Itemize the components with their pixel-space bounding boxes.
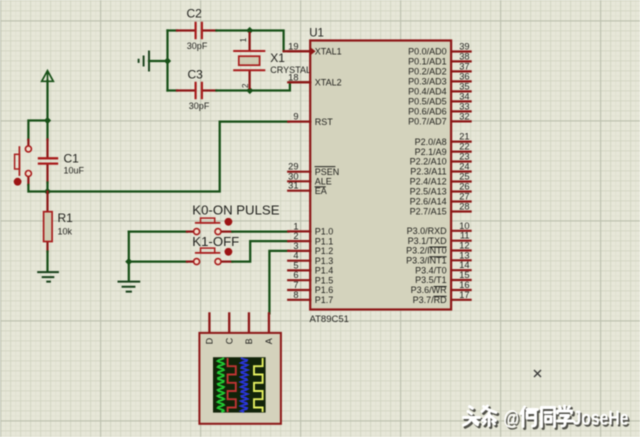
pin 15 P3.5/T1 (right)	[415, 270, 471, 285]
overline EA	[315, 186, 326, 188]
wire node to reset button top	[28, 121, 47, 140]
svg-text:U1: U1	[309, 28, 324, 40]
svg-text:X1: X1	[270, 51, 285, 65]
svg-text:10k: 10k	[58, 227, 73, 237]
svg-text:12: 12	[459, 241, 469, 251]
pin 33 P0.6/AD6 (right)	[408, 101, 471, 116]
svg-text:P2.3/A11: P2.3/A11	[410, 167, 446, 177]
pin 1 P1.0 (left)	[288, 221, 333, 236]
svg-text:P1.5: P1.5	[315, 275, 334, 285]
ground (left, sideways)	[139, 51, 149, 72]
wire oscilloscope pin stubs	[208, 313, 210, 333]
waveform red (channel C)	[228, 358, 236, 412]
svg-text:18: 18	[288, 72, 298, 82]
svg-text:P0.3/AD3: P0.3/AD3	[408, 77, 447, 87]
svg-text:D: D	[205, 337, 215, 344]
svg-text:P2.1/A9: P2.1/A9	[415, 147, 447, 157]
wire P1.2 to oscilloscope	[269, 251, 288, 314]
pin 36 P0.3/AD3 (right)	[408, 71, 471, 86]
watermark @ sign	[504, 408, 521, 432]
svg-text:37: 37	[459, 61, 469, 71]
pin 5 P1.4 (left)	[288, 260, 333, 275]
pin 21 P2.0/A8 (right)	[415, 132, 471, 147]
svg-text:P1.2: P1.2	[315, 246, 334, 256]
svg-text:15: 15	[459, 270, 469, 280]
pin 12 P3.2/INT0 (right)	[406, 241, 471, 256]
svg-text:P2.4/A12: P2.4/A12	[410, 177, 447, 187]
svg-text:3: 3	[293, 241, 298, 251]
svg-text:JoseHe: JoseHe	[573, 408, 629, 430]
capacitor C3	[168, 82, 217, 100]
svg-text:P1.3: P1.3	[315, 256, 334, 266]
svg-text:4: 4	[293, 251, 298, 261]
pin arrow XTAL1	[311, 48, 316, 55]
pin 28 P2.7/A15 (right)	[410, 202, 471, 217]
svg-text:23: 23	[459, 152, 469, 162]
svg-text:C3: C3	[188, 68, 204, 82]
svg-text:P0.4/AD4: P0.4/AD4	[408, 87, 447, 97]
svg-text:22: 22	[459, 142, 469, 152]
svg-text:24: 24	[459, 162, 469, 172]
svg-text:R1: R1	[58, 211, 74, 225]
wire K1 right to P1.1	[221, 260, 232, 262]
svg-text:19: 19	[288, 41, 298, 51]
svg-text:30pF: 30pF	[189, 101, 210, 111]
watermark 头 glyph	[464, 407, 482, 428]
pin 17 P3.7/RD (right)	[413, 290, 471, 305]
svg-text:9: 9	[293, 112, 298, 122]
pin 11 P3.1/TXD (right)	[408, 231, 471, 246]
svg-text:AT89C51: AT89C51	[310, 314, 349, 325]
node crystal bottom	[246, 87, 253, 94]
wire reset button bottom to node	[28, 185, 47, 192]
svg-text:P3.5/T1: P3.5/T1	[415, 275, 447, 285]
watermark JoseHe text	[573, 408, 631, 432]
svg-text:32: 32	[459, 111, 469, 121]
svg-text:C1: C1	[64, 152, 80, 166]
watermark 同 glyph	[542, 408, 557, 429]
node VCC/C1/button junction	[44, 117, 51, 124]
svg-text:@: @	[504, 408, 520, 430]
wire buttons ground rail	[128, 232, 130, 281]
svg-text:34: 34	[459, 91, 469, 101]
oscilloscope screen	[213, 357, 266, 412]
svg-text:K0-ON PULSE: K0-ON PULSE	[192, 202, 279, 217]
resistor R1	[44, 192, 53, 272]
svg-text:17: 17	[459, 290, 469, 300]
overline RD	[434, 295, 447, 297]
svg-text:P1.7: P1.7	[315, 295, 334, 305]
waveform blue (channel B)	[241, 358, 248, 412]
svg-text:P0.7/AD7: P0.7/AD7	[408, 117, 447, 127]
svg-text:1: 1	[239, 37, 248, 42]
svg-text:25: 25	[459, 172, 469, 182]
svg-text:P0.0/AD0: P0.0/AD0	[408, 47, 447, 57]
wire C1 node to RST	[48, 122, 289, 192]
svg-text:A: A	[264, 338, 274, 344]
svg-text:8: 8	[293, 290, 298, 300]
svg-text:K1-OFF: K1-OFF	[192, 234, 239, 249]
pin 35 P0.4/AD4 (right)	[408, 81, 471, 96]
wire ground to cap rail	[149, 60, 168, 62]
pin 14 P3.4/T0 (right)	[415, 260, 471, 275]
svg-text:11: 11	[460, 231, 470, 241]
pin 19 XTAL1 (left)	[288, 41, 342, 56]
svg-text:P1.6: P1.6	[315, 285, 334, 295]
overline PSEN	[315, 166, 336, 168]
svg-text:P3.4/T0: P3.4/T0	[415, 265, 447, 275]
svg-text:13: 13	[459, 250, 469, 260]
svg-text:2: 2	[293, 231, 298, 241]
wire XTAL1	[250, 31, 284, 52]
watermark 学 glyph	[558, 406, 575, 428]
wire VCC to node	[46, 81, 48, 121]
svg-text:PSEN: PSEN	[315, 167, 340, 177]
svg-text:EA: EA	[315, 186, 327, 196]
pin 26 P2.5/A13 (right)	[410, 182, 471, 197]
ground below R1	[37, 272, 59, 282]
pin 37 P0.2/AD2 (right)	[408, 61, 471, 76]
svg-text:30pF: 30pF	[187, 41, 208, 51]
push button K0	[194, 218, 233, 235]
pin 39 P0.0/AD0 (right)	[408, 42, 471, 57]
crystal X1	[233, 33, 265, 88]
pin 29 PSEN (left)	[288, 162, 339, 177]
svg-text:31: 31	[288, 181, 298, 191]
svg-text:16: 16	[459, 280, 469, 290]
wire cap rail vertical	[166, 31, 168, 91]
node crystal top	[246, 27, 253, 34]
svg-text:27: 27	[459, 192, 469, 202]
wire XTAL2	[250, 82, 290, 90]
pin 34 P0.5/AD5 (right)	[408, 91, 471, 106]
svg-text:P2.5/A13: P2.5/A13	[410, 187, 447, 197]
pin 32 P0.7/AD7 (right)	[408, 111, 471, 126]
wire C3 to crystal bottom node	[216, 89, 249, 91]
pin 22 P2.1/A9 (right)	[415, 142, 471, 157]
svg-text:P1.4: P1.4	[315, 266, 334, 276]
pin 3 P1.2 (left)	[288, 241, 333, 256]
op chip body U1	[310, 41, 451, 310]
svg-text:XTAL1: XTAL1	[315, 47, 342, 57]
pin 31 EA (left)	[288, 181, 327, 196]
pin 7 P1.6 (left)	[288, 280, 333, 295]
svg-text:C2: C2	[187, 7, 203, 21]
pin 13 P3.3/INT1 (right)	[406, 250, 471, 265]
svg-text:P1.0: P1.0	[315, 227, 334, 237]
wire K1 left	[129, 260, 187, 262]
watermark 何 glyph	[521, 407, 539, 428]
push button (reset)	[14, 146, 32, 186]
wire reset button pin stubs	[27, 140, 29, 146]
svg-text:B: B	[244, 338, 254, 344]
svg-text:P3.0/RXD: P3.0/RXD	[407, 226, 448, 236]
svg-text:P2.6/A14: P2.6/A14	[410, 197, 447, 207]
svg-text:P2.7/A15: P2.7/A15	[410, 207, 447, 217]
svg-text:P1.1: P1.1	[315, 236, 334, 246]
ground below buttons	[118, 282, 141, 292]
pin 10 P3.0/RXD (right)	[407, 221, 471, 236]
svg-text:P0.5/AD5: P0.5/AD5	[408, 97, 447, 107]
power VCC arrow	[42, 71, 54, 82]
svg-text:C: C	[225, 337, 235, 344]
svg-text:5: 5	[293, 260, 298, 270]
node ground/rail junction	[164, 57, 171, 64]
pin 23 P2.2/A10 (right)	[410, 152, 471, 167]
svg-text:2: 2	[241, 83, 250, 88]
svg-text:33: 33	[459, 101, 469, 111]
svg-text:10uF: 10uF	[64, 166, 85, 176]
svg-text:14: 14	[459, 260, 469, 270]
svg-text:38: 38	[459, 51, 469, 61]
overline INT0	[429, 246, 446, 248]
pin 25 P2.4/A12 (right)	[410, 172, 471, 187]
svg-text:28: 28	[459, 202, 469, 212]
svg-text:10: 10	[459, 221, 469, 231]
pin 27 P2.6/A14 (right)	[410, 192, 471, 207]
pin 2 P1.1 (left)	[288, 231, 333, 246]
pin 8 P1.7 (left)	[288, 290, 333, 305]
pin 24 P2.3/A11 (right)	[410, 162, 470, 177]
small x mark	[534, 370, 541, 377]
pin 6 P1.5 (left)	[288, 270, 333, 285]
capacitor C2	[168, 22, 217, 40]
svg-text:35: 35	[459, 81, 469, 91]
oscilloscope body	[199, 333, 281, 424]
svg-text:26: 26	[459, 182, 469, 192]
wire K0 right to P1.0	[221, 230, 232, 232]
push button K1	[194, 248, 233, 265]
waveform yellow (channel A)	[254, 358, 263, 412]
pin 9 RST (left)	[288, 112, 333, 127]
svg-text:RST: RST	[315, 117, 334, 127]
node C1 bottom junction	[44, 188, 51, 195]
pin 38 P0.1/AD1 (right)	[408, 51, 471, 66]
overline INT1	[429, 256, 446, 258]
capacitor C1	[38, 121, 58, 192]
svg-text:6: 6	[293, 270, 298, 280]
svg-text:P0.2/AD2: P0.2/AD2	[408, 67, 447, 77]
svg-text:P0.6/AD6: P0.6/AD6	[408, 107, 447, 117]
svg-text:39: 39	[459, 42, 469, 52]
svg-text:P0.1/AD1: P0.1/AD1	[408, 57, 447, 67]
wire C2 to crystal top node	[216, 29, 249, 31]
pin 18 XTAL2 (left)	[288, 72, 342, 87]
wire K0 left	[129, 230, 187, 232]
node K1 rail junction	[125, 258, 132, 265]
overline WR	[434, 286, 447, 288]
svg-text:XTAL2: XTAL2	[315, 78, 342, 88]
svg-text:P2.0/A8: P2.0/A8	[415, 137, 447, 147]
svg-text:7: 7	[293, 280, 298, 290]
svg-text:36: 36	[459, 71, 469, 81]
pin 16 P3.6/WR (right)	[411, 280, 471, 295]
svg-text:21: 21	[459, 132, 469, 142]
pin 4 P1.3 (left)	[288, 251, 333, 266]
svg-text:29: 29	[288, 162, 298, 172]
pin 30 ALE (left)	[288, 171, 332, 186]
svg-text:1: 1	[293, 221, 298, 231]
waveform green (channel D)	[218, 358, 224, 412]
watermark 条 glyph	[482, 406, 498, 427]
svg-text:P3.1/TXD: P3.1/TXD	[408, 236, 448, 246]
svg-text:P2.2/A10: P2.2/A10	[410, 157, 447, 167]
